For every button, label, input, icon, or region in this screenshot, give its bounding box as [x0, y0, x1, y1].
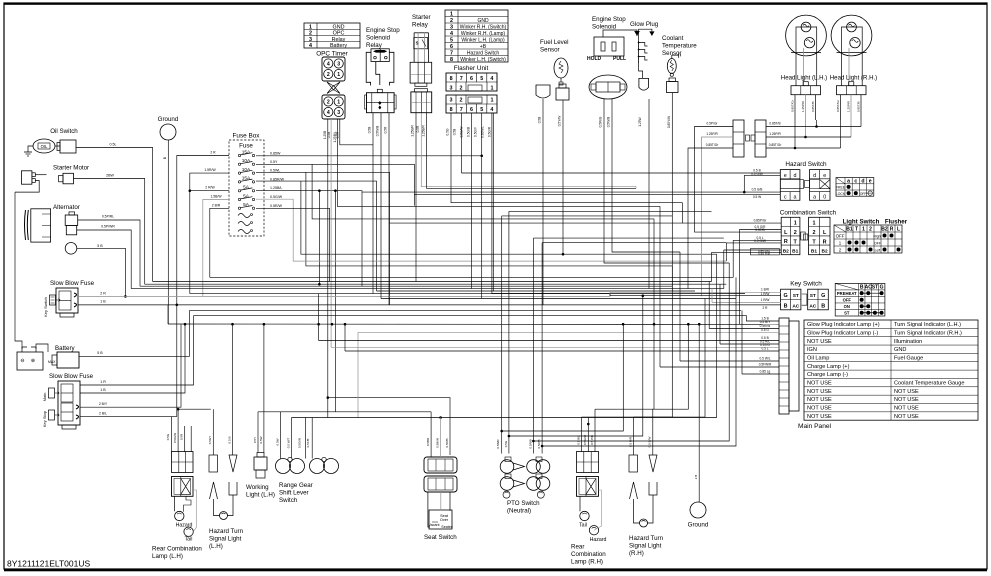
flasher unit connector (harness side) [446, 95, 497, 113]
node opc1 branch [327, 396, 330, 399]
node 5B-2R [124, 295, 127, 298]
svg-text:PULL: PULL [613, 56, 626, 62]
wire v345 [344, 324, 346, 351]
svg-text:1.25B/R: 1.25B/R [411, 125, 415, 137]
wire fuse out 1.25B/L [256, 191, 362, 287]
svg-text:1: 1 [337, 72, 340, 78]
range gear shift lever switch [276, 459, 291, 474]
svg-text:Starter: Starter [412, 14, 431, 21]
svg-text:Flasher Unit: Flasher Unit [454, 65, 489, 72]
combination switch grid (switch) [809, 217, 830, 254]
wire comb 4v [732, 240, 734, 277]
wire stair3 [653, 324, 689, 409]
svg-text:Seat Switch: Seat Switch [424, 534, 457, 541]
wire ESSR 2 [380, 113, 382, 299]
wire stair8 [533, 263, 729, 441]
wire ground bottom [698, 324, 700, 502]
svg-text:1 R/W: 1 R/W [761, 298, 770, 302]
svg-text:1: 1 [491, 86, 494, 92]
alternator lamp circle [65, 243, 77, 255]
wire fuse out 0.85W [256, 155, 482, 157]
wire comb 7v [711, 252, 713, 281]
svg-text:0.5 W/L: 0.5 W/L [760, 357, 771, 361]
wire sbf upper 1B out [78, 304, 781, 306]
svg-text:0.5R: 0.5R [416, 125, 420, 132]
wire fuse out 0.5WL a [256, 172, 390, 304]
wire hzr 1 [633, 417, 635, 455]
wire coolant [671, 93, 673, 292]
wire pto 2 [508, 211, 510, 453]
svg-text:1: 1 [309, 24, 312, 30]
svg-text:1 B: 1 B [100, 388, 106, 392]
wire wl hor [258, 411, 281, 413]
wire pto 1h [502, 215, 673, 217]
wire stairA1 [258, 411, 431, 413]
coolant temperature sensor symbol [667, 59, 676, 74]
wire v680b [679, 252, 681, 361]
svg-text:0.85T/B: 0.85T/B [857, 101, 861, 112]
svg-text:Hazard: Hazard [590, 537, 607, 543]
wire bus 1B [78, 304, 781, 306]
svg-text:Hazard Turn: Hazard Turn [209, 528, 244, 535]
svg-text:0.85T/Gr: 0.85T/Gr [791, 100, 795, 112]
svg-text:Head Light (R.H.): Head Light (R.H.) [830, 75, 877, 82]
svg-text:Switch: Switch [279, 497, 298, 504]
svg-text:1.5R/W: 1.5R/W [204, 168, 216, 172]
wire fuse out 0.5Y a [256, 164, 414, 205]
svg-text:2: 2 [450, 18, 453, 24]
svg-text:0.5R: 0.5R [180, 433, 184, 440]
wire hl left1 [695, 127, 734, 233]
svg-text:3: 3 [309, 37, 312, 43]
wire comb 5v [725, 243, 727, 261]
wire mp row3 feed [709, 282, 779, 329]
svg-text:G: G [880, 285, 884, 291]
wire key v712 [711, 289, 713, 303]
main panel table [804, 320, 978, 420]
svg-text:Winker L.H. (Lamp): Winker L.H. (Lamp) [461, 37, 505, 43]
wire ess pull [612, 99, 680, 252]
alternator connector [65, 215, 78, 225]
node pto1 [500, 430, 503, 433]
svg-text:NOT USE: NOT USE [894, 414, 919, 420]
svg-text:e: e [784, 173, 787, 179]
svg-text:Oil Lamp: Oil Lamp [807, 355, 829, 361]
wire mprow5 [319, 340, 779, 342]
svg-text:0.85T/B: 0.85T/B [811, 101, 815, 112]
coolant temp sensor connector [667, 82, 679, 93]
svg-text:Key Switch: Key Switch [790, 280, 822, 287]
svg-text:Battery: Battery [330, 43, 347, 49]
hazard turn signal LH lamp [214, 499, 220, 516]
engine stop solenoid connector [589, 75, 627, 99]
svg-text:0.5P/RL: 0.5P/RL [102, 215, 114, 219]
wire v742 [741, 294, 743, 375]
svg-text:2: 2 [327, 72, 330, 78]
svg-text:6: 6 [450, 44, 453, 50]
svg-text:8: 8 [450, 57, 453, 63]
svg-text:Vacant: Vacant [429, 523, 440, 527]
svg-text:0.5BR: 0.5BR [426, 437, 430, 446]
comb label box [750, 249, 779, 255]
wire v358 gray [357, 332, 359, 417]
rear combination lamp LH bulbs [174, 496, 176, 511]
key switch grid (switch) [808, 289, 829, 310]
wire alternator 0.5P/RL [78, 220, 140, 286]
wire bus 4 [140, 285, 672, 287]
slow blow fuse lower body [58, 381, 80, 425]
wire hl bus3 [766, 147, 841, 149]
svg-text:Turn Signal Indicator (R.H.): Turn Signal Indicator (R.H.) [894, 330, 962, 336]
svg-text:(Neutral): (Neutral) [507, 508, 531, 515]
svg-text:OPC Timer: OPC Timer [316, 51, 348, 58]
svg-text:0.5R: 0.5R [384, 126, 388, 133]
svg-text:3: 3 [337, 110, 340, 116]
wire bus 9 [381, 298, 736, 300]
head light RH low beam bulb [850, 38, 860, 48]
svg-text:OFF: OFF [836, 233, 845, 238]
wire fuse out 0.5Y b [312, 164, 654, 219]
wire bus 5 [131, 288, 724, 290]
wire comb 6 [724, 249, 781, 251]
wire comb 2v [738, 230, 740, 325]
svg-text:Combination Switch: Combination Switch [780, 210, 837, 217]
wire pto 4 [541, 243, 543, 454]
svg-text:1: 1 [813, 221, 816, 227]
OPC timer pin table [304, 23, 360, 48]
svg-text:NOT USE: NOT USE [894, 389, 919, 395]
wire stair7 [509, 296, 643, 436]
wire mprow4 gray [358, 331, 779, 333]
svg-text:0.5 G/W: 0.5 G/W [751, 172, 763, 176]
svg-text:NOT USE: NOT USE [894, 406, 919, 412]
svg-text:1.25P/R: 1.25P/R [801, 100, 805, 112]
svg-text:AC: AC [809, 303, 816, 309]
svg-text:Seated: Seated [441, 525, 452, 529]
wire seat 1 [430, 412, 432, 457]
svg-text:Working: Working [246, 484, 269, 491]
svg-text:Left: Left [875, 248, 881, 252]
node pto3 [532, 440, 535, 443]
svg-text:0.5Y: 0.5Y [253, 437, 257, 443]
wire sbf lower 2B/Y [80, 321, 746, 408]
wire OPC pin 3 [338, 119, 340, 150]
alternator body [31, 209, 51, 242]
svg-text:2: 2 [794, 230, 797, 236]
wire rclrh 1 [581, 417, 583, 452]
main panel connector [779, 318, 789, 414]
svg-text:Glow Plug: Glow Plug [630, 21, 659, 28]
svg-text:ON: ON [844, 304, 850, 309]
rear combination lamp LH connector [172, 452, 194, 473]
svg-text:OFF: OFF [874, 241, 881, 245]
svg-text:0.5WL: 0.5WL [270, 169, 280, 173]
wire fuse out 0.85R/W b [301, 181, 717, 254]
hazard turn signal LH lower contacts [210, 482, 218, 499]
svg-text:4: 4 [309, 43, 312, 49]
svg-text:0.5R/B: 0.5R/B [529, 439, 533, 448]
slow blow fuse upper body [56, 288, 78, 313]
svg-text:0.5G: 0.5G [166, 433, 170, 440]
wire bus 1R [194, 316, 780, 321]
svg-text:Starter Motor: Starter Motor [53, 165, 89, 172]
svg-text:B: B [860, 285, 864, 291]
seat switch body [429, 510, 452, 529]
svg-text:0.85T/Gr: 0.85T/Gr [836, 100, 840, 112]
wire 1.5R/W to fuse [190, 173, 229, 294]
head light LH high beam bulb [801, 22, 811, 32]
svg-text:7: 7 [460, 76, 463, 82]
svg-text:Illumination: Illumination [894, 339, 922, 345]
svg-text:Hazard Turn: Hazard Turn [629, 535, 664, 542]
svg-text:2: 2 [309, 31, 312, 37]
svg-text:Signal Light: Signal Light [629, 543, 662, 550]
svg-text:7: 7 [460, 107, 463, 113]
wire bus 2R gray [610, 292, 781, 296]
wire hl bus1 [766, 126, 861, 128]
svg-text:Slow Blow Fuse: Slow Blow Fuse [49, 373, 94, 380]
working light symbol [254, 457, 267, 470]
head light LH connector [791, 86, 821, 95]
wire 1.25B/L branch2 [334, 191, 336, 412]
wire battery gnd link [36, 344, 48, 352]
rear combination lamp RH bulbs [579, 496, 581, 511]
svg-text:MAX: MAX [48, 360, 56, 364]
wire rg 1 [280, 412, 282, 459]
svg-text:ST: ST [810, 293, 816, 299]
svg-text:Head Light (L.H.): Head Light (L.H.) [781, 75, 827, 82]
svg-text:1 R: 1 R [100, 380, 106, 384]
svg-text:0.5Y/W: 0.5Y/W [558, 116, 562, 126]
svg-text:3: 3 [450, 86, 453, 92]
node v319 end [318, 283, 321, 286]
wire pto 2h [509, 210, 712, 212]
svg-text:Winker R.H. (Lamp): Winker R.H. (Lamp) [461, 31, 506, 37]
wire OPC 1 [327, 119, 329, 418]
svg-text:1: 1 [450, 11, 453, 17]
svg-text:NOT USE: NOT USE [807, 414, 832, 420]
svg-text:R: R [890, 226, 894, 232]
wire bus 6 [377, 290, 696, 292]
svg-text:0.5W/B: 0.5W/B [607, 117, 611, 127]
svg-text:2 B/L: 2 B/L [99, 412, 107, 416]
wire stair9 [542, 277, 736, 446]
svg-text:0.5G/W: 0.5G/W [270, 195, 283, 199]
svg-text:Light (L.H): Light (L.H) [246, 492, 275, 499]
svg-text:0.5G/Y: 0.5G/Y [474, 126, 478, 137]
seat switch connectors [424, 457, 457, 473]
svg-text:Fuse: Fuse [239, 143, 253, 150]
svg-text:0.5R/W: 0.5R/W [270, 204, 283, 208]
wire rcl drop1 [171, 417, 173, 452]
svg-text:a: a [813, 195, 816, 201]
wire hazard 0.5G/W [744, 174, 780, 176]
svg-text:d: d [813, 173, 816, 179]
wire bus 7 [190, 293, 610, 295]
svg-text:1.25W: 1.25W [638, 117, 642, 126]
wire hzr 2 [652, 409, 654, 455]
svg-text:Ground: Ground [158, 116, 179, 123]
svg-text:d: d [861, 179, 864, 185]
wire rg 2 [291, 418, 293, 459]
svg-text:Solenoid: Solenoid [592, 24, 617, 31]
svg-text:0.85R/W: 0.85R/W [270, 177, 285, 181]
svg-text:Battery: Battery [55, 345, 76, 352]
svg-text:R: R [784, 239, 788, 245]
svg-text:8Y1211121ELT001US: 8Y1211121ELT001US [7, 559, 91, 569]
node key 1RW [642, 294, 645, 297]
svg-text:0.5B: 0.5B [327, 132, 331, 139]
wire SR 1 [415, 113, 417, 282]
svg-text:B: B [784, 303, 788, 309]
hazard turn signal RH lamp [634, 499, 640, 523]
wire flasher p7 [461, 113, 463, 173]
wire 2R to fuse [177, 156, 229, 417]
top rule [4, 3, 987, 5]
svg-text:Glow Plug Indicator Lamp (-): Glow Plug Indicator Lamp (-) [807, 330, 878, 336]
wire ground top [167, 140, 169, 324]
svg-text:IGN: IGN [807, 347, 817, 353]
svg-text:c: c [784, 195, 787, 201]
node pto2 [508, 435, 511, 438]
svg-text:Hazard Switch: Hazard Switch [785, 161, 827, 168]
svg-text:0.5 P/B: 0.5 P/B [590, 435, 594, 445]
wire hl left2 [702, 137, 734, 296]
head light LH shell [786, 15, 827, 56]
wire dist 324 [168, 323, 779, 326]
node d324 699.2 [698, 323, 701, 326]
bottom thick rule [4, 569, 987, 572]
svg-text:Coolant: Coolant [662, 35, 684, 42]
svg-text:Fuel Level: Fuel Level [540, 39, 569, 46]
wire hazard 0.5B [462, 172, 781, 174]
svg-text:OFF: OFF [843, 298, 852, 303]
svg-text:0.5G: 0.5G [504, 440, 508, 447]
svg-text:0.5T/B: 0.5T/B [306, 439, 310, 448]
svg-text:Sensor: Sensor [540, 47, 560, 54]
node seat2 tap [439, 416, 442, 419]
svg-text:0.5P/WR: 0.5P/WR [101, 225, 115, 229]
wire mprow9 [680, 360, 779, 362]
node hazard gr [743, 191, 746, 194]
wire rcl hor [178, 408, 211, 410]
wire fuse out 0.5WL b [306, 172, 672, 266]
svg-text:0.5G: 0.5G [446, 128, 450, 135]
svg-text:0.5FW/R: 0.5FW/R [759, 363, 772, 367]
flasher unit connector (component side) [446, 73, 497, 91]
node 2RW [189, 189, 192, 192]
svg-text:3: 3 [450, 24, 453, 30]
svg-text:d: d [794, 173, 797, 179]
wire hazard corner [743, 175, 745, 192]
svg-text:1 R/W: 1 R/W [761, 292, 770, 296]
wire mprow3 [709, 328, 779, 330]
svg-text:0.85P/Gr: 0.85P/Gr [754, 219, 768, 223]
svg-text:B1: B1 [792, 249, 798, 255]
engine stop solenoid relay body [371, 49, 389, 62]
svg-text:HOLD: HOLD [587, 56, 602, 62]
svg-text:Rear: Rear [571, 544, 584, 551]
head light RH connector [837, 86, 867, 95]
svg-text:NOT USE: NOT USE [807, 406, 832, 412]
starter motor symbol [63, 173, 74, 184]
hazard turn signal RH lower contacts [630, 482, 638, 499]
svg-text:2: 2 [460, 86, 463, 92]
wire sbf 2BY [80, 324, 181, 407]
wire mprow6 [720, 317, 779, 344]
wire HL LH w1 [794, 120, 796, 148]
svg-text:2: 2 [813, 230, 816, 236]
wire mprow6b [720, 343, 779, 345]
svg-text:B1: B1 [846, 226, 853, 232]
svg-text:⊕: ⊕ [31, 358, 35, 364]
wire oil switch 0.5L [76, 148, 153, 282]
svg-text:2 R: 2 R [210, 151, 216, 155]
svg-text:Winker L.H. (Switch): Winker L.H. (Switch) [460, 57, 506, 63]
svg-text:Engine Stop: Engine Stop [366, 27, 400, 34]
head light LH bulb wires [795, 53, 797, 86]
svg-text:0.85T/B: 0.85T/B [769, 122, 780, 126]
svg-text:0.85W/L: 0.85W/L [481, 126, 485, 138]
svg-text:Charge Lamp (-): Charge Lamp (-) [807, 372, 848, 378]
svg-text:0.5B/R: 0.5B/R [496, 439, 500, 449]
svg-text:Charge Lamp (+): Charge Lamp (+) [807, 364, 850, 370]
wire ESSR 3 [388, 113, 390, 305]
svg-text:OPC: OPC [333, 31, 345, 37]
hazard turn signal LH upper contacts [209, 455, 218, 472]
rear combination lamp RH connector [577, 452, 599, 473]
wire comb 6v [723, 250, 725, 289]
wire 1.5B/W to fuse [203, 200, 229, 297]
wire left conn down [15, 192, 22, 349]
key switch state table [835, 283, 885, 316]
svg-text:2 B/R: 2 B/R [212, 203, 221, 207]
svg-text:Signal Light: Signal Light [209, 536, 242, 543]
svg-text:0.5G/B: 0.5G/B [467, 127, 471, 137]
svg-text:Coolant Temperature Gauge: Coolant Temperature Gauge [894, 381, 964, 387]
svg-text:0.85Y/W: 0.85Y/W [667, 116, 671, 128]
svg-text:Over: Over [440, 518, 449, 522]
svg-text:6: 6 [470, 107, 473, 113]
head light RH bulb wires [841, 53, 843, 86]
glow plug symbol [638, 41, 640, 63]
wire battery 5B [79, 310, 190, 356]
seat switch internal wires [440, 492, 442, 511]
node 2R-1B [176, 304, 179, 307]
svg-text:0.5 G/W: 0.5 G/W [754, 239, 766, 243]
fuse box with fuses [229, 140, 264, 236]
svg-text:0.5 B/L: 0.5 B/L [577, 435, 581, 445]
wire bus 8 [492, 293, 745, 295]
node d324 623.1 [622, 323, 625, 326]
wire stair1 [595, 219, 654, 409]
svg-text:0.5G/W: 0.5G/W [173, 433, 177, 443]
node fuel2 [562, 253, 565, 256]
wire hazard 0.5W [414, 194, 780, 196]
starter relay lower connector [411, 92, 432, 113]
svg-text:2 B: 2 B [694, 475, 698, 480]
wire HL LH w2 [805, 120, 807, 137]
svg-text:FREE: FREE [836, 186, 846, 190]
svg-text:B: B [821, 303, 825, 309]
svg-text:Turn Signal Indicator (L.H.): Turn Signal Indicator (L.H.) [894, 322, 961, 328]
svg-text:LOCK: LOCK [836, 192, 846, 196]
svg-text:1.25B/L: 1.25B/L [270, 186, 282, 190]
OPC timer connector (component side) [322, 57, 345, 81]
svg-text:0.5B/W: 0.5B/W [436, 438, 440, 448]
head light RH inner frame [842, 27, 863, 53]
svg-text:Right: Right [874, 234, 882, 238]
